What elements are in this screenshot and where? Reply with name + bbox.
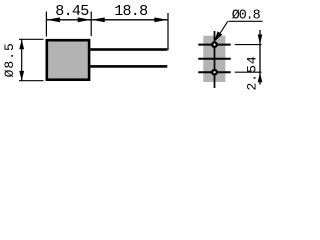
arrowhead diameter 8.5 bottom: [19, 71, 24, 81]
leader shoulder line under diameter 0.8 text: [228, 20, 262, 22]
svg-text:Ø0.8: Ø0.8: [232, 8, 261, 23]
crosshair line pin 1: [198, 44, 230, 46]
arrowhead 18.8 right: [154, 17, 167, 22]
arrowhead 8.45 left: [47, 17, 60, 22]
pin 1 hole (end view): [211, 41, 218, 48]
leader diagonal line to pin 1: [216, 21, 228, 40]
component body (side view): [47, 40, 89, 79]
extension line left of 8.45 dimension: [45, 12, 47, 37]
dimension text 18.8: [114, 2, 148, 20]
leader arrowhead at pin 1: [214, 31, 222, 41]
extension line right of 18.8 dimension (lead end): [167, 13, 169, 50]
label text diameter 0.8: [232, 8, 261, 23]
extension line 2.54 bottom: [235, 71, 262, 73]
dimension line 8.45 and 18.8: [46, 19, 168, 21]
dimension text 2.54 (rotated): [245, 55, 260, 90]
dimension line diameter 8.5: [21, 39, 23, 81]
arrowhead 8.45 right: [78, 17, 91, 22]
shared extension line between 8.45 and 18.8 dimensions: [90, 12, 92, 37]
arrowhead 2.54 bottom (pointing up): [258, 73, 263, 83]
svg-text:18.8: 18.8: [114, 2, 148, 20]
lead 1 (top lead, side view): [90, 48, 167, 51]
crosshair line pin 2: [198, 71, 230, 73]
vertical centerline (end view): [214, 31, 216, 88]
extension line 2.54 top: [235, 44, 262, 46]
svg-text:2.54: 2.54: [245, 55, 260, 90]
extension line diameter 8.5 bottom: [19, 80, 44, 82]
crosshair line middle: [198, 58, 230, 60]
pad strip (end view): [203, 36, 225, 82]
pin 2 hole (end view): [211, 69, 218, 76]
extension line diameter 8.5 top: [19, 38, 44, 40]
svg-text:8.45: 8.45: [55, 2, 89, 20]
dimension text 8.45: [55, 2, 89, 20]
arrowhead 2.54 top (pointing down): [258, 35, 263, 45]
lead 2 (bottom lead, side view): [90, 65, 167, 68]
arrowhead diameter 8.5 top: [19, 40, 24, 50]
arrowhead 18.8 left: [92, 17, 105, 22]
svg-text:Ø8.5: Ø8.5: [2, 42, 17, 77]
dimension line 2.54: [259, 30, 261, 85]
dimension text diameter 8.5 (rotated): [2, 42, 17, 77]
